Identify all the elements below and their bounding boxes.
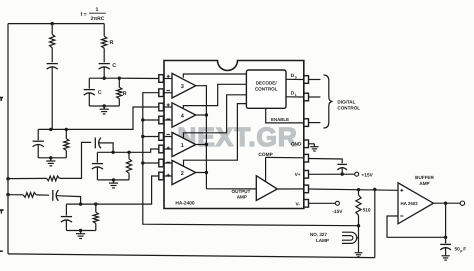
label DIGITAL CONTROL <box>337 99 360 110</box>
ground tank1 <box>100 106 109 114</box>
wire amp1 output <box>196 144 207 146</box>
wire V+ <box>309 173 355 175</box>
svg-text:V+: V+ <box>295 172 301 178</box>
node tank3 feed <box>111 151 114 154</box>
node amp4- junction <box>141 118 144 121</box>
op-amp 1 <box>167 132 196 156</box>
terminal +15V <box>355 172 359 176</box>
resistor net4 <box>23 193 36 198</box>
capacitor 50pF <box>440 244 451 250</box>
svg-text:2πRC: 2πRC <box>91 16 105 22</box>
wire net3 b <box>59 142 91 178</box>
wire top rail <box>8 23 104 25</box>
wire D1 <box>286 96 304 98</box>
svg-text:NO. 327: NO. 327 <box>310 232 328 237</box>
node net3 rail <box>6 177 9 180</box>
brace digital control <box>324 75 333 128</box>
node tank4 feed <box>79 202 82 205</box>
node feedback cap <box>444 236 447 239</box>
svg-text:CONTROL: CONTROL <box>337 106 360 111</box>
wire D1 stub <box>309 96 321 98</box>
watermark <box>177 122 297 152</box>
svg-text:DECODE/: DECODE/ <box>256 80 278 85</box>
node tank4 bottom <box>79 229 82 232</box>
wire net3 a <box>8 177 47 179</box>
label GND <box>291 142 302 148</box>
node feedback tap <box>373 188 376 191</box>
node amp1 out <box>205 143 208 146</box>
svg-text:1: 1 <box>295 93 297 97</box>
svg-text:-15V: -15V <box>332 209 343 215</box>
wire bus to output amp <box>206 188 256 190</box>
ground GND pin <box>310 144 318 151</box>
svg-text:LAMP: LAMP <box>316 238 329 243</box>
wire tank4 to amp2+ <box>96 176 159 204</box>
wire net4 c <box>57 196 81 204</box>
label BUFFER AMP <box>415 175 434 186</box>
node tank2 out <box>65 128 68 131</box>
label V- <box>295 201 300 207</box>
scan mark left edge 1 <box>0 98 3 102</box>
lamp NO.327 <box>342 232 359 243</box>
scan mark left edge 3 <box>0 250 3 252</box>
wire amp4 select <box>183 84 246 108</box>
svg-text:CONTROL: CONTROL <box>255 87 278 92</box>
wire tank3 to amp1+ <box>129 149 159 152</box>
tank2 bottom wire <box>38 157 66 159</box>
wire bottom feedback <box>8 254 375 258</box>
node net4 rail <box>6 193 9 196</box>
tank2 top wire <box>38 128 66 130</box>
tank1 bottom wire <box>89 105 119 107</box>
wires pins to amps <box>163 79 172 177</box>
ground tank4 <box>76 231 85 239</box>
wire branch1 mid <box>103 48 105 62</box>
wire COMP cap bottom <box>341 168 343 174</box>
svg-text:2: 2 <box>181 171 184 177</box>
wire feedback riser <box>374 189 376 257</box>
tank3 res branch <box>126 152 131 180</box>
label ENABLE <box>271 117 289 122</box>
wire amp2- stub <box>143 162 159 164</box>
tank4 res branch <box>93 204 98 230</box>
capacitor COMP <box>337 164 347 170</box>
node branch2 rail junction <box>51 22 54 25</box>
node amp2- junction <box>141 161 144 164</box>
wire V- <box>309 202 336 204</box>
svg-text:0: 0 <box>295 75 297 79</box>
wire amp3 output <box>196 86 207 189</box>
wire branch2 mid <box>51 48 53 63</box>
wire buffer out <box>433 202 460 204</box>
node 510 top <box>357 188 360 191</box>
node amp2 out <box>205 171 208 174</box>
wire net4 a <box>8 194 23 196</box>
tank3 top wire <box>97 151 129 153</box>
svg-text:510: 510 <box>363 207 371 213</box>
ground 50pF <box>441 253 449 260</box>
svg-text:+15V: +15V <box>362 172 374 178</box>
node tank1 feed <box>103 77 106 80</box>
wire branch1 to tank1 <box>103 67 105 78</box>
wire tank2 to amp4+ <box>66 107 159 129</box>
tank2 cap branch <box>33 129 44 157</box>
output amp triangle <box>256 176 277 201</box>
tank4 bottom wire <box>66 230 95 232</box>
resistor branch2 <box>50 35 55 48</box>
label -15V <box>332 209 343 215</box>
svg-text:1: 1 <box>96 7 99 13</box>
formula f=1/2piRC <box>81 7 106 22</box>
label 50pF <box>455 246 467 253</box>
wire amp4 output <box>196 114 207 116</box>
tank4 cap branch <box>61 204 72 230</box>
wire 50pF bottom <box>445 248 447 253</box>
wire 510 bottom <box>358 215 360 225</box>
svg-text:AMP: AMP <box>419 181 429 186</box>
label D0 <box>291 73 297 79</box>
tank2 res branch <box>64 129 69 157</box>
node lamp junction <box>357 224 360 227</box>
op-amp 3 <box>167 73 196 98</box>
capacitor net4 series <box>53 190 59 201</box>
tank3 cap branch <box>92 152 103 180</box>
tank1 res branch <box>117 78 122 106</box>
svg-text:DIGITAL: DIGITAL <box>337 99 355 104</box>
label D1 <box>291 91 297 97</box>
wire COMP cap <box>309 159 343 164</box>
tank1 cap branch <box>84 78 95 106</box>
resistor R branch1 <box>102 24 107 49</box>
wire amp1- stub <box>143 136 159 138</box>
wire ENABLE stub <box>309 122 321 124</box>
capacitor net3 series <box>95 138 101 149</box>
buffer amp HA-2602 <box>398 183 433 224</box>
svg-text:BUFFER: BUFFER <box>415 175 434 180</box>
svg-text:HA 2602: HA 2602 <box>401 201 419 206</box>
svg-text:F: F <box>463 246 466 252</box>
svg-text:GND: GND <box>291 142 302 148</box>
label HA-2400 <box>175 201 195 207</box>
node tank2 bottom <box>49 156 52 159</box>
wire COMP to output amp <box>265 157 267 181</box>
wire amp3- to common <box>143 93 359 226</box>
terminal output <box>460 201 464 205</box>
op-amp 4 <box>167 103 196 127</box>
pin boxes left (amp inputs) <box>159 75 164 180</box>
svg-text:C: C <box>112 63 116 69</box>
wire amp2 select <box>184 104 247 167</box>
wire buffer feedback <box>387 216 446 237</box>
label C tank1 <box>98 90 102 96</box>
wire left rail <box>7 24 9 254</box>
scan mark left edge 2 <box>0 210 4 214</box>
capacitor C branch1 <box>99 64 110 70</box>
node amp1- junction <box>141 135 144 138</box>
pin boxes right <box>304 76 309 207</box>
ground tank2 <box>46 158 55 166</box>
wire tank1 to amp3+ <box>119 77 159 79</box>
IC package HA-2400 outline <box>164 61 304 209</box>
wire branch2 to tank2 <box>51 67 53 129</box>
capacitor branch2 <box>47 64 58 70</box>
node tank3 bottom <box>112 178 115 181</box>
ground lamp <box>355 250 363 257</box>
label C branch1 <box>112 63 116 69</box>
svg-text:HA-2400: HA-2400 <box>175 201 195 207</box>
ground tank3 <box>109 180 118 188</box>
svg-text:AMP: AMP <box>237 194 247 199</box>
wire lamp down <box>358 226 360 250</box>
wire output to buffer <box>309 189 399 190</box>
svg-text:R: R <box>110 40 114 46</box>
tank4 top wire <box>66 203 95 205</box>
label R tank1 <box>123 91 127 97</box>
label OUTPUT AMP <box>232 189 251 200</box>
svg-text:3: 3 <box>181 84 184 90</box>
svg-text:f =: f = <box>81 12 87 18</box>
label COMP <box>258 152 273 158</box>
resistor net3 <box>47 176 60 181</box>
node tank4 out <box>94 202 97 205</box>
node tank2 feed <box>49 128 52 131</box>
svg-text:OUTPUT: OUTPUT <box>232 189 251 194</box>
decode/control block <box>246 70 286 108</box>
wire amp3 select <box>183 74 246 78</box>
node tank1 out <box>118 77 121 80</box>
label NO. 327 LAMP <box>310 232 329 243</box>
label 510 <box>363 207 371 213</box>
wire D0 stub <box>309 79 321 81</box>
terminal -15V <box>335 201 339 205</box>
label V+ <box>295 172 301 178</box>
node tank3 out <box>127 151 130 154</box>
wire output amp out <box>277 188 304 190</box>
wire COMP <box>266 156 304 158</box>
svg-text:ENABLE: ENABLE <box>271 117 289 122</box>
label R branch1 <box>110 40 114 46</box>
node COMP cap junction <box>341 172 344 175</box>
wire amp2 output <box>196 172 207 174</box>
svg-text:C: C <box>98 90 102 96</box>
resistor 510 <box>356 195 361 215</box>
wire amp1 select <box>184 95 247 139</box>
node tank1 bottom <box>103 104 106 107</box>
wire branch2 top <box>51 24 53 35</box>
tank3 bottom wire <box>97 179 129 181</box>
wire net3 c <box>99 143 113 152</box>
svg-text:R: R <box>123 91 127 97</box>
wire net4 b <box>36 194 49 196</box>
wire amp4- stub <box>143 119 159 121</box>
label +15V <box>362 172 374 178</box>
node buffer out <box>444 202 447 205</box>
op-amp 2 <box>167 160 196 184</box>
wire 510 top <box>358 190 360 195</box>
wire GND pin <box>309 143 315 145</box>
wire to 50pF <box>445 203 447 243</box>
node amp4 out <box>205 113 208 116</box>
svg-text:V-: V- <box>295 201 300 207</box>
wire D0 <box>286 78 304 80</box>
wire ENABLE <box>266 108 304 123</box>
tank1 top wire <box>89 77 119 79</box>
svg-text:1: 1 <box>181 143 184 149</box>
